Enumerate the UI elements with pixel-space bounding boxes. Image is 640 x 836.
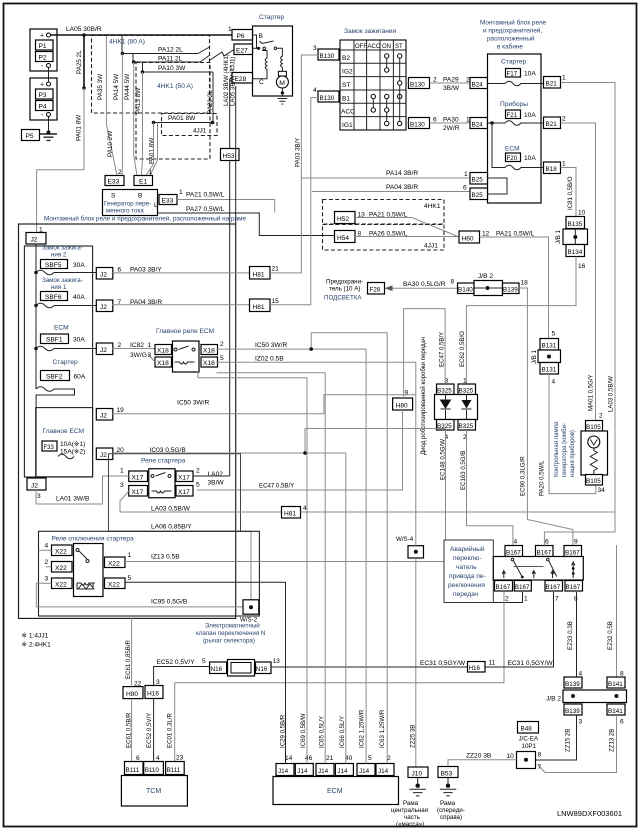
svg-text:30A: 30A xyxy=(73,262,85,269)
svg-text:Реле отключения стартера: Реле отключения стартера xyxy=(52,536,135,543)
svg-text:EC47 0,5B/Y: EC47 0,5B/Y xyxy=(259,483,294,490)
svg-text:LA06 0,85B/Y: LA06 0,85B/Y xyxy=(151,524,192,531)
svg-text:B1: B1 xyxy=(342,96,350,103)
svg-text:10P1: 10P1 xyxy=(522,743,537,750)
svg-text:4HK1: 4HK1 xyxy=(424,203,441,210)
svg-text:14: 14 xyxy=(285,755,293,762)
svg-text:8: 8 xyxy=(538,752,542,759)
svg-text:ПОДСВЕТКА: ПОДСВЕТКА xyxy=(324,295,362,302)
emergency gearshift switch xyxy=(444,540,493,603)
svg-text:LNW89DXF003601: LNW89DXF003601 xyxy=(557,809,622,818)
switch contacts circles xyxy=(371,54,402,126)
svg-text:21: 21 xyxy=(326,755,334,762)
svg-text:B141: B141 xyxy=(608,708,623,715)
svg-text:переклю-: переклю- xyxy=(453,555,482,562)
svg-text:ST: ST xyxy=(395,44,403,50)
wire LA03 from B21-1 xyxy=(561,83,616,513)
svg-text:4JJ1: 4JJ1 xyxy=(424,243,438,250)
svg-text:EC47 0,5B/Y: EC47 0,5B/Y xyxy=(439,332,446,367)
svg-text:B105: B105 xyxy=(586,478,601,485)
svg-text:4: 4 xyxy=(514,539,518,546)
svg-text:H54: H54 xyxy=(337,235,349,242)
svg-text:EC01 0,3L/R: EC01 0,3L/R xyxy=(167,713,174,748)
svg-text:J14: J14 xyxy=(378,768,389,775)
svg-text:ACC: ACC xyxy=(368,44,381,50)
svg-text:IC82: IC82 xyxy=(130,342,144,349)
svg-text:Главное ECM: Главное ECM xyxy=(43,428,85,435)
svg-text:B111: B111 xyxy=(126,767,140,774)
svg-text:J14: J14 xyxy=(318,768,329,775)
svg-text:J10: J10 xyxy=(412,771,423,778)
svg-text:PA29: PA29 xyxy=(443,77,459,84)
svg-text:4HK1 (80 A): 4HK1 (80 A) xyxy=(109,39,145,46)
svg-text:B140: B140 xyxy=(458,287,473,294)
svg-text:B325: B325 xyxy=(459,423,474,430)
svg-text:4JJ1: 4JJ1 xyxy=(193,128,207,135)
svg-text:J/B 1: J/B 1 xyxy=(555,230,562,244)
svg-text:3: 3 xyxy=(120,482,124,489)
svg-text:IZ13 0,5B: IZ13 0,5B xyxy=(151,554,180,561)
H54 connector xyxy=(335,231,356,243)
svg-text:Главное реле ECM: Главное реле ECM xyxy=(156,328,214,335)
svg-text:ZZ13 2B: ZZ13 2B xyxy=(609,729,616,752)
H52 connector xyxy=(335,212,356,224)
starter relay enclosure xyxy=(109,454,241,532)
svg-text:PA04 3B/R: PA04 3B/R xyxy=(386,184,418,191)
svg-text:J14: J14 xyxy=(359,768,370,775)
svg-text:J2: J2 xyxy=(100,272,107,279)
connector B18 pin1 xyxy=(544,162,561,174)
svg-text:X17: X17 xyxy=(178,475,190,482)
svg-text:H52: H52 xyxy=(337,216,349,223)
svg-text:Замок зажига-: Замок зажига- xyxy=(42,277,83,284)
svg-text:P4: P4 xyxy=(39,104,47,111)
wire E28 to LA02 riser xyxy=(230,78,232,80)
svg-text:J/B 1: J/B 1 xyxy=(531,350,538,364)
svg-text:10A(※1): 10A(※1) xyxy=(60,441,85,448)
svg-text:часть: часть xyxy=(404,814,420,821)
svg-text:B167: B167 xyxy=(537,550,552,557)
dashed box 4JJ1 xyxy=(162,114,218,136)
svg-text:B130: B130 xyxy=(410,122,425,129)
svg-text:B135: B135 xyxy=(568,221,583,228)
svg-text:Аварийный: Аварийный xyxy=(450,545,485,553)
svg-text:ECM: ECM xyxy=(54,325,69,332)
svg-text:2: 2 xyxy=(466,77,470,84)
svg-text:Предохрани-: Предохрани- xyxy=(326,279,363,286)
ECM box xyxy=(273,777,399,805)
svg-text:PA12 2L: PA12 2L xyxy=(158,47,183,54)
J/C-EA connector B48 xyxy=(518,722,539,734)
svg-text:J14: J14 xyxy=(337,768,348,775)
svg-text:SBF1: SBF1 xyxy=(46,337,63,344)
starter ground xyxy=(278,99,288,105)
svg-text:X22: X22 xyxy=(108,582,120,589)
svg-text:LA01 3W/B: LA01 3W/B xyxy=(56,496,90,503)
svg-text:TCM: TCM xyxy=(146,788,161,795)
svg-text:M: M xyxy=(279,80,285,87)
svg-text:X22: X22 xyxy=(55,549,67,556)
svg-text:справа): справа) xyxy=(440,814,462,821)
svg-text:PA14 5W: PA14 5W xyxy=(113,74,120,100)
ignition switch table xyxy=(340,40,406,130)
svg-text:B: B xyxy=(138,193,143,200)
svg-text:6: 6 xyxy=(620,719,624,726)
svg-text:6: 6 xyxy=(463,185,467,192)
svg-text:7: 7 xyxy=(538,764,542,771)
svg-text:B105: B105 xyxy=(586,424,601,431)
svg-text:B131: B131 xyxy=(542,343,557,350)
TCM box xyxy=(121,776,187,807)
svg-text:9: 9 xyxy=(405,390,409,397)
svg-text:B134: B134 xyxy=(568,249,583,256)
svg-text:F33: F33 xyxy=(44,445,55,451)
svg-text:OFF: OFF xyxy=(355,44,367,50)
svg-text:J/C-EA: J/C-EA xyxy=(519,736,539,743)
svg-text:B325: B325 xyxy=(437,388,452,395)
svg-text:P2: P2 xyxy=(39,55,47,62)
svg-text:X17: X17 xyxy=(178,489,190,496)
svg-text:J2: J2 xyxy=(100,347,107,354)
svg-text:H16: H16 xyxy=(469,665,481,672)
svg-text:B139: B139 xyxy=(565,681,580,688)
ground J10 xyxy=(408,767,428,778)
svg-text:ECM: ECM xyxy=(505,146,520,153)
svg-text:Монтажный блок реле: Монтажный блок реле xyxy=(480,19,547,27)
svg-text:30A: 30A xyxy=(73,337,85,344)
svg-text:X18: X18 xyxy=(157,360,169,367)
svg-text:ON: ON xyxy=(382,44,391,50)
svg-text:PA01 8W: PA01 8W xyxy=(149,138,156,164)
svg-text:X17: X17 xyxy=(132,475,144,482)
wire EC90 from B139-18 xyxy=(519,288,573,546)
svg-text:J2: J2 xyxy=(31,237,38,244)
svg-text:10A: 10A xyxy=(524,112,536,119)
dashed box 4JJ1 (H54) xyxy=(323,225,445,251)
svg-text:F21: F21 xyxy=(507,112,518,119)
svg-text:IC50 3W/R: IC50 3W/R xyxy=(255,342,287,349)
svg-text:7: 7 xyxy=(555,596,559,603)
svg-text:21: 21 xyxy=(272,266,280,273)
svg-text:IZ02 0.5B: IZ02 0.5B xyxy=(255,356,284,363)
ground battery negative xyxy=(40,117,57,141)
svg-text:ACC: ACC xyxy=(341,109,355,116)
connector J2 pin7 xyxy=(96,300,113,312)
svg-text:EZ32 0,5B: EZ32 0,5B xyxy=(607,621,614,650)
svg-text:чатель: чатель xyxy=(456,564,477,571)
svg-text:B130: B130 xyxy=(320,53,335,60)
svg-text:2: 2 xyxy=(45,559,49,566)
svg-text:клапан переключения N: клапан переключения N xyxy=(196,630,265,637)
svg-text:※ 1:4JJ1: ※ 1:4JJ1 xyxy=(22,633,49,640)
svg-text:5: 5 xyxy=(220,355,224,362)
svg-text:H81: H81 xyxy=(253,272,265,279)
svg-text:2: 2 xyxy=(433,77,437,84)
svg-text:IC81 0,5B/O: IC81 0,5B/O xyxy=(567,176,574,210)
svg-text:Стартер: Стартер xyxy=(259,14,285,21)
svg-text:нация приборов): нация приборов) xyxy=(570,430,576,477)
svg-text:5: 5 xyxy=(202,658,206,665)
svg-text:B18: B18 xyxy=(546,166,558,173)
connector B24 (PA30) xyxy=(470,118,488,129)
svg-text:6: 6 xyxy=(545,539,549,546)
X22 internals xyxy=(76,549,89,563)
svg-text:40A: 40A xyxy=(73,294,85,301)
svg-text:P5: P5 xyxy=(26,133,34,140)
svg-text:1: 1 xyxy=(562,75,566,82)
svg-text:+: + xyxy=(40,82,44,89)
svg-text:Рама: Рама xyxy=(440,800,456,807)
svg-text:B111: B111 xyxy=(167,767,181,774)
svg-text:J14: J14 xyxy=(297,768,308,775)
svg-text:ST: ST xyxy=(342,82,350,89)
svg-text:EC52 0,5V/Y: EC52 0,5V/Y xyxy=(157,659,196,666)
svg-text:F28: F28 xyxy=(370,287,381,294)
svg-text:H16: H16 xyxy=(147,691,159,698)
svg-text:ZZ20 3B: ZZ20 3B xyxy=(466,753,492,760)
svg-text:E1: E1 xyxy=(139,179,147,186)
svg-text:J2: J2 xyxy=(100,304,107,311)
svg-text:H81: H81 xyxy=(284,511,296,518)
starter internals xyxy=(252,35,282,79)
svg-text:PA10 3W: PA10 3W xyxy=(158,65,186,72)
svg-text:1: 1 xyxy=(179,189,183,196)
dashed box 4HK1 (80 A) xyxy=(92,36,210,114)
svg-text:X18: X18 xyxy=(203,348,215,355)
svg-text:B167: B167 xyxy=(546,584,561,591)
svg-text:4: 4 xyxy=(303,505,307,512)
svg-text:B25: B25 xyxy=(472,177,484,184)
svg-text:B21: B21 xyxy=(546,121,558,128)
svg-text:B167: B167 xyxy=(566,584,581,591)
wire into E27 xyxy=(210,50,234,61)
wire LA02 from X17-2 xyxy=(193,475,230,477)
svg-text:PA44 5W: PA44 5W xyxy=(124,74,131,100)
svg-text:2W/R: 2W/R xyxy=(443,125,460,132)
svg-text:3: 3 xyxy=(45,576,49,583)
svg-text:B167: B167 xyxy=(515,584,530,591)
svg-text:Рама: Рама xyxy=(403,800,419,807)
svg-text:N16: N16 xyxy=(211,666,223,673)
svg-text:PA03 3B/Y: PA03 3B/Y xyxy=(295,138,302,167)
svg-text:тель (10 А): тель (10 А) xyxy=(329,286,360,293)
svg-text:EC62 0,5B/O: EC62 0,5B/O xyxy=(459,331,466,367)
svg-text:Контрольная лампа: Контрольная лампа xyxy=(554,421,560,477)
svg-text:3: 3 xyxy=(37,493,41,500)
svg-text:B167: B167 xyxy=(565,550,580,557)
svg-text:X22: X22 xyxy=(55,582,67,589)
svg-text:1: 1 xyxy=(120,468,124,475)
svg-text:Стартер: Стартер xyxy=(53,359,79,366)
svg-text:PA01 8W: PA01 8W xyxy=(76,115,83,141)
dashed box 4HK1 (50 A) xyxy=(136,63,210,160)
svg-text:EC90 0,3LG/R: EC90 0,3LG/R xyxy=(520,456,527,496)
svg-text:LA03 0,5B/W: LA03 0,5B/W xyxy=(608,376,615,412)
svg-text:H60: H60 xyxy=(462,236,474,243)
svg-text:4: 4 xyxy=(552,379,556,386)
svg-text:Монтажный блок реле и предохра: Монтажный блок реле и предохранителей, р… xyxy=(44,215,247,223)
wire B167-7 to EC31 xyxy=(553,592,555,667)
svg-text:B21: B21 xyxy=(546,81,558,88)
connector B24 (PA29) xyxy=(470,78,488,89)
svg-text:P3: P3 xyxy=(39,92,47,99)
svg-text:C: C xyxy=(259,79,264,86)
connector J2 pin19 xyxy=(96,409,113,421)
battery pack 2 (P3,P4) xyxy=(30,78,57,120)
svg-text:H81: H81 xyxy=(253,304,265,311)
svg-text:Замок зажигания: Замок зажигания xyxy=(344,28,397,35)
svg-text:P1: P1 xyxy=(39,43,47,50)
wire battery series link xyxy=(48,68,50,83)
ground B53 xyxy=(438,767,458,778)
svg-text:Замок зажига-: Замок зажига- xyxy=(42,245,83,252)
svg-text:J2: J2 xyxy=(31,483,38,490)
svg-text:2: 2 xyxy=(220,341,224,348)
svg-text:J14: J14 xyxy=(278,768,289,775)
svg-text:4: 4 xyxy=(313,87,317,94)
svg-text:3: 3 xyxy=(579,719,583,726)
wire IC03 branch to diode pack xyxy=(305,429,446,454)
svg-text:2: 2 xyxy=(562,116,566,123)
svg-text:B325: B325 xyxy=(459,388,474,395)
svg-text:генератора (комби-: генератора (комби- xyxy=(562,423,568,477)
svg-text:10: 10 xyxy=(507,753,515,760)
svg-text:6: 6 xyxy=(433,117,437,124)
svg-text:2: 2 xyxy=(599,413,603,420)
svg-text:B48: B48 xyxy=(521,726,533,733)
svg-text:IC50 3W/R: IC50 3W/R xyxy=(177,400,209,407)
svg-text:IG1: IG1 xyxy=(342,122,353,129)
svg-text:J/B 2: J/B 2 xyxy=(546,696,561,703)
svg-text:B139: B139 xyxy=(565,708,580,715)
wire B131-4 to lamp xyxy=(549,374,596,494)
svg-text:LA03 0,5B/W: LA03 0,5B/W xyxy=(151,506,191,513)
svg-text:X17: X17 xyxy=(132,489,144,496)
svg-text:16: 16 xyxy=(578,263,586,270)
svg-text:1: 1 xyxy=(148,342,152,349)
svg-text:IC95 0,5G/B: IC95 0,5G/B xyxy=(151,599,188,606)
svg-text:EC31 0,5GY/W: EC31 0,5GY/W xyxy=(508,660,554,667)
svg-text:EC52 0,5V/Y: EC52 0,5V/Y xyxy=(146,713,153,748)
svg-text:X22: X22 xyxy=(108,561,120,568)
svg-text:5: 5 xyxy=(368,755,372,762)
svg-text:B141: B141 xyxy=(608,681,623,688)
svg-text:1: 1 xyxy=(228,26,232,33)
svg-text:2: 2 xyxy=(118,342,122,349)
connector J2 bottom pin3 xyxy=(27,478,46,490)
svg-text:E33: E33 xyxy=(108,179,120,186)
connector B21 pin2 xyxy=(544,117,561,129)
svg-text:PA25 2L: PA25 2L xyxy=(76,50,83,74)
svg-text:в кабине: в кабине xyxy=(497,43,523,51)
svg-text:и предохранителей,: и предохранителей, xyxy=(483,27,542,35)
svg-text:3: 3 xyxy=(313,45,317,52)
svg-text:SBF6: SBF6 xyxy=(45,294,62,301)
svg-text:3B/W: 3B/W xyxy=(443,85,460,92)
svg-text:передач: передач xyxy=(453,591,478,598)
svg-text:B: B xyxy=(259,33,264,40)
svg-text:B110: B110 xyxy=(145,767,160,774)
svg-text:PA27 0,5W/L: PA27 0,5W/L xyxy=(186,206,225,213)
svg-text:ZZ15 2B: ZZ15 2B xyxy=(565,729,572,752)
fuse F33 main ECM xyxy=(36,408,93,477)
svg-text:1: 1 xyxy=(466,117,470,124)
svg-text:PA01 8W: PA01 8W xyxy=(168,115,196,122)
svg-text:1: 1 xyxy=(464,171,468,178)
wire MA01 from B21-2 xyxy=(561,123,596,423)
svg-text:W/S-4: W/S-4 xyxy=(396,536,414,543)
wire B130-3 riser to PA14 xyxy=(301,55,318,178)
svg-text:34: 34 xyxy=(598,487,606,494)
svg-text:3B/W: 3B/W xyxy=(208,480,225,487)
svg-text:IC63 1,25W/R: IC63 1,25W/R xyxy=(379,709,386,748)
svg-text:E27: E27 xyxy=(236,48,248,55)
cab fuse block box xyxy=(488,54,542,203)
svg-text:12: 12 xyxy=(482,231,490,238)
connector E27 xyxy=(234,44,253,55)
svg-text:ZZ25 3B: ZZ25 3B xyxy=(410,725,417,748)
svg-text:PA30: PA30 xyxy=(443,117,459,124)
H81 connector pin21 xyxy=(250,267,271,280)
svg-text:H53: H53 xyxy=(223,153,235,160)
wire B167-2 (EC01) down-left to TCM xyxy=(175,592,504,762)
wire B167-6 feed from LA03 xyxy=(544,512,615,546)
svg-text:X18: X18 xyxy=(203,360,215,367)
svg-text:IC66 0,5L/Y: IC66 0,5L/Y xyxy=(339,716,346,748)
svg-text:B130: B130 xyxy=(320,95,335,102)
svg-text:SBF5: SBF5 xyxy=(45,262,62,269)
svg-text:(рычаг селектора): (рычаг селектора) xyxy=(203,638,255,645)
svg-text:IC65 0,5L/Y: IC65 0,5L/Y xyxy=(319,716,326,748)
starter box xyxy=(253,26,293,96)
svg-text:2: 2 xyxy=(505,596,509,603)
svg-text:10A: 10A xyxy=(524,71,536,78)
svg-text:B24: B24 xyxy=(472,82,484,89)
svg-text:10A: 10A xyxy=(524,155,536,162)
svg-text:※ 2:4HK1: ※ 2:4HK1 xyxy=(22,642,52,649)
connector B130 right (PA29) xyxy=(409,78,430,89)
svg-text:EC163 0,5G/B: EC163 0,5G/B xyxy=(460,451,467,490)
svg-text:B167: B167 xyxy=(496,584,511,591)
svg-text:PA35 3W: PA35 3W xyxy=(97,74,104,100)
svg-text:13: 13 xyxy=(273,658,281,665)
svg-text:H80: H80 xyxy=(126,691,138,698)
W/S-2 splice xyxy=(243,600,259,614)
svg-text:менного тока: менного тока xyxy=(106,208,144,215)
svg-text:F17: F17 xyxy=(507,71,518,78)
svg-text:23: 23 xyxy=(176,755,184,762)
connector J2 pin20 xyxy=(96,448,113,460)
connector B130 right (PA30) xyxy=(409,118,430,129)
svg-text:B2: B2 xyxy=(342,55,350,62)
relay coil xyxy=(175,362,195,364)
svg-text:SBF2: SBF2 xyxy=(46,374,63,381)
svg-text:ния 2: ния 2 xyxy=(51,252,67,259)
H53 connector xyxy=(221,149,240,161)
svg-text:LA02: LA02 xyxy=(208,471,224,478)
svg-text:B25: B25 xyxy=(472,192,484,199)
svg-text:4HK1 (50 A): 4HK1 (50 A) xyxy=(157,83,193,90)
svg-text:1: 1 xyxy=(128,552,132,559)
battery pack 1 (P1,P2) xyxy=(30,29,57,71)
connector P5 xyxy=(22,130,40,141)
svg-text:ния 1: ния 1 xyxy=(51,284,67,291)
svg-text:J2: J2 xyxy=(100,452,107,459)
svg-text:19: 19 xyxy=(117,407,125,414)
wire from B134 down to EC62 xyxy=(466,257,576,385)
svg-text:3W/G: 3W/G xyxy=(130,352,147,359)
B25 internal links xyxy=(488,178,508,194)
